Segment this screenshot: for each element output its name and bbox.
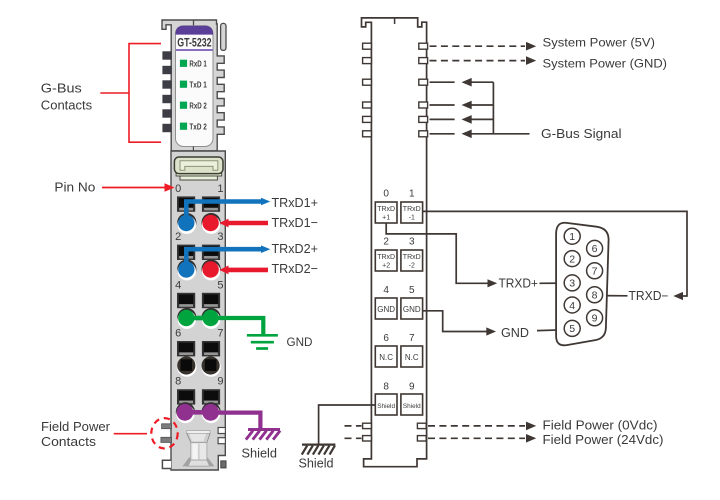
- svg-text:System Power (5V): System Power (5V): [543, 36, 656, 50]
- label panel: [176, 26, 214, 147]
- svg-text:5: 5: [409, 285, 415, 296]
- svg-text:+1: +1: [382, 215, 390, 222]
- svg-text:TRxD2+: TRxD2+: [272, 241, 319, 256]
- schematic G-bus tabs (right edge): [419, 43, 428, 137]
- svg-text:TRxD1−: TRxD1−: [272, 215, 319, 230]
- G-Bus signal wires: [430, 82, 530, 134]
- svg-text:Shield: Shield: [299, 457, 334, 471]
- svg-text:TxD 2: TxD 2: [189, 121, 207, 131]
- svg-text:G-Bus Signal: G-Bus Signal: [541, 127, 622, 141]
- pin numbers 2 3: [175, 231, 223, 243]
- svg-text:GND: GND: [501, 326, 529, 340]
- G-Bus signal arrows: [462, 78, 472, 138]
- wire GND to pin5: [537, 329, 564, 332]
- field power notches (right edge): [218, 428, 225, 444]
- svg-text:Field Power (24Vdc): Field Power (24Vdc): [543, 432, 664, 447]
- shield symbol (schematic): [302, 445, 336, 455]
- panel purple header: [176, 26, 214, 35]
- svg-text:3: 3: [409, 237, 415, 248]
- svg-text:7: 7: [592, 266, 598, 278]
- terminal box 9: Shield: [401, 394, 423, 415]
- wire box8 to shield: [319, 405, 376, 444]
- svg-text:6: 6: [383, 333, 389, 344]
- wire pin8 to TRXD-: [603, 295, 628, 297]
- wire TRxD1- (red): [227, 221, 269, 226]
- svg-text:TRxD: TRxD: [403, 206, 421, 213]
- svg-text:5: 5: [217, 279, 223, 291]
- bottom-left foot: [162, 460, 171, 468]
- svg-text:Contacts: Contacts: [41, 98, 93, 113]
- svg-text:TxD 1: TxD 1: [189, 79, 207, 89]
- field power tabs (schematic edges): [363, 423, 427, 441]
- svg-text:Field Power (0Vdc): Field Power (0Vdc): [543, 417, 658, 432]
- terminal 1 (red): [202, 213, 221, 234]
- DB9 pin 1: [564, 228, 580, 244]
- svg-text:5: 5: [569, 323, 575, 335]
- svg-text:1: 1: [409, 189, 415, 200]
- svg-text:GND: GND: [287, 335, 313, 349]
- wire box0 to TRXD+: [386, 223, 488, 283]
- svg-text:-1: -1: [409, 215, 415, 222]
- svg-text:TRxD2−: TRxD2−: [272, 261, 319, 276]
- terminal box 2: TRxD/+2: [375, 250, 397, 271]
- svg-text:3: 3: [217, 231, 223, 243]
- svg-text:6: 6: [592, 243, 598, 255]
- svg-text:TRxD: TRxD: [403, 254, 421, 261]
- svg-text:N.C: N.C: [379, 353, 393, 362]
- svg-text:TRXD−: TRXD−: [629, 289, 669, 303]
- svg-text:9: 9: [217, 376, 223, 388]
- Field Power leader: [114, 433, 147, 435]
- shield symbol (purple): [246, 430, 280, 440]
- terminal block body: [171, 151, 225, 470]
- G-Bus contacts (6 dark pads): [162, 51, 171, 132]
- terminal 2 (blue): [177, 260, 196, 281]
- ground symbol (green): [247, 335, 278, 348]
- svg-text:6: 6: [175, 327, 181, 339]
- svg-text:Shield: Shield: [403, 403, 421, 410]
- DB9 pin 8: [587, 287, 603, 303]
- svg-text:4: 4: [383, 285, 389, 296]
- field power contact pads (left edge): [161, 424, 172, 443]
- pin numbers 0 1: [175, 183, 223, 195]
- terminal box 4: GND: [375, 298, 397, 319]
- svg-text:4: 4: [569, 300, 575, 312]
- terminal box 5: GND: [401, 298, 423, 319]
- terminals 8,9 (purple, bridged): [176, 402, 221, 423]
- Field Power Contacts label: [41, 419, 111, 449]
- box numbers 0 1: [383, 189, 415, 200]
- svg-text:7: 7: [409, 333, 415, 344]
- svg-text:7: 7: [217, 327, 223, 339]
- DB9 pin 4: [564, 297, 580, 313]
- terminals 4,5 (green, bridged): [177, 308, 221, 329]
- terminal box 6: N.C: [375, 346, 397, 367]
- release latch shadow: [183, 458, 215, 467]
- svg-text:2: 2: [175, 231, 181, 243]
- schematic G-bus tabs (left edge): [363, 43, 372, 137]
- svg-text:9: 9: [592, 313, 598, 325]
- LED TxD 2: [180, 121, 207, 131]
- wire System Power GND (dashed): [430, 60, 526, 62]
- G-Bus Contacts label: [41, 81, 93, 113]
- wire Field Power (0Vdc) (dashed): [345, 425, 526, 427]
- terminals 6,7 (n.c. dark): [177, 356, 221, 376]
- DB9 pin 6: [587, 240, 603, 256]
- svg-text:0: 0: [383, 189, 389, 200]
- DB9 pin 2: [564, 251, 580, 267]
- svg-text:RxD 1: RxD 1: [189, 58, 207, 68]
- box numbers 2 3: [383, 237, 415, 248]
- block top center tick: [192, 146, 194, 151]
- Field Power dashed circle: [151, 418, 177, 448]
- terminal box 1: TRxD/-1: [401, 202, 423, 223]
- terminal wire holes: [177, 196, 220, 404]
- svg-text:TRXD+: TRXD+: [499, 277, 539, 291]
- DB9 pin 9: [587, 310, 603, 326]
- terminal 0 (blue): [177, 213, 196, 234]
- ejector latch: [174, 157, 223, 180]
- svg-text:2: 2: [569, 253, 575, 265]
- terminal box 7: N.C: [401, 346, 423, 367]
- svg-text:N.C: N.C: [405, 353, 419, 362]
- wire TRXD+ to pin3: [540, 282, 565, 284]
- wire TRxD2- (red): [227, 268, 269, 273]
- svg-text:-2: -2: [409, 263, 415, 270]
- wire TRxD2+ (blue): [186, 249, 262, 265]
- svg-text:1: 1: [569, 231, 575, 243]
- svg-text:System Power (GND): System Power (GND): [543, 57, 668, 71]
- wire box5 to GND: [423, 311, 487, 332]
- svg-text:8: 8: [383, 381, 389, 392]
- wire GND (green): [216, 318, 263, 334]
- LED RxD 1: [180, 58, 207, 68]
- svg-text:GND: GND: [377, 305, 395, 314]
- terminal box 3: TRxD/-2: [401, 250, 423, 271]
- svg-text:RxD 2: RxD 2: [189, 100, 207, 110]
- svg-text:4: 4: [175, 279, 181, 291]
- release latch wedge: [187, 431, 210, 467]
- terminal 3 (red): [202, 260, 221, 281]
- box numbers 6 7: [383, 333, 415, 344]
- svg-text:Shield: Shield: [377, 403, 395, 410]
- svg-text:Field Power: Field Power: [41, 419, 111, 434]
- bottom-right foot: [221, 461, 226, 468]
- Pin No arrow: [102, 183, 175, 192]
- DB9 pin 7: [587, 263, 603, 279]
- svg-text:Shield: Shield: [242, 447, 278, 461]
- housing top center tick: [193, 20, 195, 26]
- pin numbers 4 5: [175, 279, 223, 291]
- pin numbers 6 7: [175, 327, 223, 339]
- module upper housing: [162, 20, 224, 151]
- svg-text:0: 0: [175, 183, 181, 195]
- box numbers 8 9: [383, 381, 415, 392]
- terminal box 0: TRxD/+1: [375, 202, 397, 223]
- svg-text:1: 1: [217, 183, 223, 195]
- schematic module outline: [362, 18, 427, 467]
- housing top-right clip tab: [221, 23, 226, 50]
- pin numbers 8 9: [175, 376, 223, 388]
- svg-text:TRxD: TRxD: [377, 254, 395, 261]
- svg-text:2: 2: [383, 237, 389, 248]
- DB9 pin 5: [564, 320, 580, 336]
- wire TRxD1+ (blue): [186, 202, 262, 220]
- svg-text:GND: GND: [403, 305, 421, 314]
- wire Shield (purple): [216, 413, 260, 429]
- svg-text:G-Bus: G-Bus: [41, 81, 83, 96]
- terminal box 8: Shield: [375, 394, 397, 415]
- svg-text:TRxD: TRxD: [377, 206, 395, 213]
- purple underline: [176, 49, 213, 51]
- svg-text:Pin No: Pin No: [54, 179, 95, 194]
- wire Field Power (24Vdc) (dashed): [345, 437, 526, 439]
- svg-text:8: 8: [592, 290, 598, 302]
- G-Bus bracket: [100, 44, 161, 143]
- wire System Power 5V (dashed): [430, 45, 526, 47]
- LED RxD 2: [180, 100, 207, 110]
- box numbers 4 5: [383, 285, 415, 296]
- LED TxD 1: [180, 79, 207, 89]
- svg-text:GT-5232: GT-5232: [177, 38, 211, 50]
- schematic top center tick: [394, 18, 396, 24]
- svg-text:TRxD1+: TRxD1+: [272, 195, 319, 210]
- DB9 connector outline: [556, 223, 609, 346]
- svg-text:9: 9: [409, 381, 415, 392]
- wire box1 to TRXD-: [423, 211, 687, 296]
- svg-text:3: 3: [569, 278, 575, 290]
- DB9 pin 3: [564, 275, 580, 291]
- svg-text:8: 8: [175, 376, 181, 388]
- svg-text:+2: +2: [382, 263, 390, 270]
- svg-text:Contacts: Contacts: [41, 434, 97, 449]
